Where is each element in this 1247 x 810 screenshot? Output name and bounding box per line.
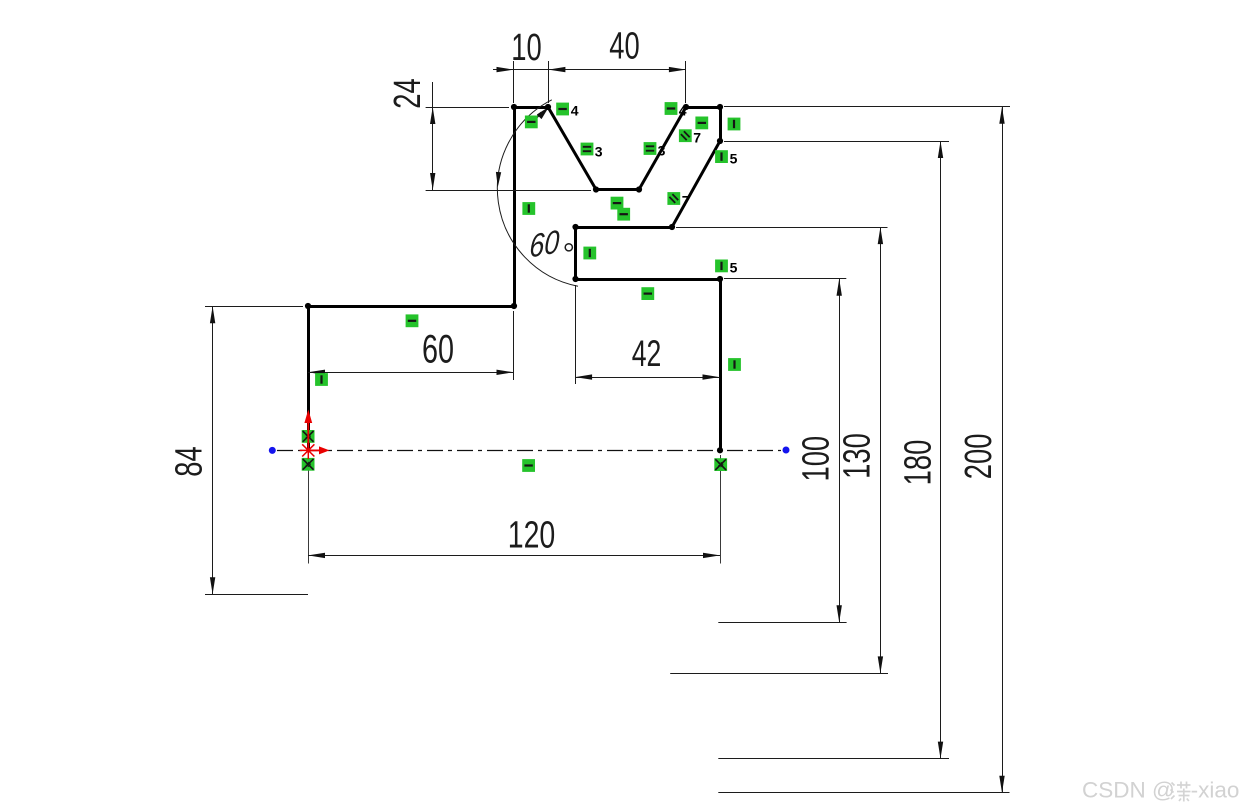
wire chamfer diagonal I-J	[672, 141, 720, 227]
arrow dim24 down	[430, 173, 435, 190]
wire left vertical B-C	[513, 107, 516, 306]
node P10	[572, 276, 578, 282]
wire left vertical O-A	[307, 306, 310, 450]
dimension line 120	[308, 555, 720, 557]
angular dim arrow at apex	[537, 107, 549, 119]
svg-text:100: 100	[795, 436, 837, 482]
node P8	[669, 224, 675, 230]
wire V bottom E-F	[596, 188, 639, 191]
svg-text:60: 60	[422, 327, 454, 372]
node P5	[683, 104, 689, 110]
node P13	[305, 303, 311, 309]
origin point star	[300, 442, 317, 459]
extension line y=227 right	[676, 227, 888, 229]
wire shoulder horizontal A-B	[308, 305, 514, 308]
constraint vertical (edge H-I)	[728, 118, 741, 131]
arrow dim130 up	[878, 227, 883, 244]
dimension line 60	[308, 372, 514, 374]
svg-text:3: 3	[595, 144, 603, 160]
node P9	[572, 224, 578, 230]
svg-text:CSDN @: CSDN @	[1082, 778, 1175, 803]
angular dim leader to apex	[532, 113, 542, 123]
wire V right slope F-G	[639, 107, 686, 190]
svg-text:7: 7	[693, 130, 701, 146]
constraint vertical (edge O-A)	[315, 373, 328, 386]
arrow dim84 down	[210, 577, 215, 594]
arrow dim10 right	[548, 67, 565, 72]
svg-text:10: 10	[511, 27, 541, 69]
arrow dim24 up	[430, 107, 435, 124]
arrow dim40 right	[669, 67, 686, 72]
angular dim arrow on horizontal	[496, 172, 501, 187]
arrow dim120 right	[703, 553, 720, 558]
constraint equal 4 (edge C-D)	[556, 102, 579, 118]
node P2	[545, 104, 551, 110]
extension line y=673 right	[670, 673, 888, 675]
node P3	[593, 186, 599, 192]
constraint vertical 5 (edge H-I)	[715, 150, 738, 166]
constraint horizontal (step bottom L-M)	[641, 287, 654, 300]
svg-text:5: 5	[730, 260, 738, 276]
wire right vertical H-I	[719, 107, 722, 141]
node P12	[717, 447, 723, 453]
node P11	[717, 276, 723, 282]
watermark CSDN	[1082, 778, 1239, 803]
constraint equal 3 (V right slope)	[644, 142, 666, 158]
svg-text:180: 180	[897, 440, 939, 486]
arrow dim130 down	[878, 656, 883, 673]
svg-text:7: 7	[682, 192, 690, 208]
constraint fixed (origin lower)	[302, 458, 315, 471]
svg-text:42: 42	[632, 333, 662, 374]
extension line y=622 right	[718, 622, 846, 624]
centerline	[277, 450, 781, 452]
node P1	[511, 104, 517, 110]
node P14	[511, 303, 517, 309]
extension line y=107 right	[724, 106, 1010, 108]
extension line x=308 below	[308, 456, 310, 564]
wire step top J-K	[576, 226, 673, 229]
constraint horizontal (shoulder A-B)	[406, 314, 419, 327]
node P6	[717, 104, 723, 110]
svg-text:5: 5	[730, 150, 738, 166]
centerline right endpoint	[783, 447, 790, 454]
dimension line 84	[212, 306, 214, 594]
constraint parallel 7 (diagonal I-J)	[667, 192, 689, 208]
svg-text:40: 40	[609, 25, 639, 67]
extension line x=575 mid	[575, 285, 577, 384]
extension line x=513.5 top	[513, 61, 515, 103]
constraint vertical 5 (edge M-N)	[715, 260, 738, 276]
dimension line 24	[432, 82, 434, 190]
node P4	[636, 186, 642, 192]
extension line y=190 left	[426, 190, 591, 192]
wire right vertical M-N	[719, 279, 722, 450]
svg-text:3: 3	[658, 143, 666, 159]
constraint horizontal (step top J-K)	[617, 208, 630, 221]
arrow dim60 right	[497, 370, 514, 375]
extension line x=548.4 top	[548, 61, 550, 103]
extension line y=107 left	[426, 107, 509, 109]
dimension line 130	[880, 227, 882, 673]
svg-text:4: 4	[571, 102, 579, 118]
constraint horizontal (V bottom E-F)	[611, 197, 624, 210]
svg-text:24: 24	[387, 78, 429, 108]
angular dimension arc 60deg	[497, 100, 578, 286]
extension line y=793 right	[718, 792, 1009, 794]
arrow dim10 left	[497, 67, 514, 72]
wire top edge C-D	[514, 106, 548, 109]
dimension line 180	[940, 141, 942, 759]
constraint horizontal (top edge C-D)	[525, 116, 538, 129]
wire step bottom L-M	[576, 278, 721, 281]
dimension line 200	[1002, 107, 1004, 793]
extension line y=758 right	[718, 758, 949, 760]
constraint horizontal (centerline)	[522, 459, 535, 472]
svg-text:120: 120	[508, 515, 556, 557]
extension line x=513.5 mid	[513, 311, 515, 380]
arrow dim84 up	[210, 306, 215, 323]
dimension line 10-40	[493, 69, 686, 71]
arrow dim60 left	[308, 370, 325, 375]
constraint vertical (edge B-C)	[522, 202, 535, 215]
arrow dim42 right	[703, 374, 720, 379]
arrow dim100 down	[837, 605, 842, 622]
constraint parallel 7 (V slope)	[679, 129, 701, 145]
arrow dim180 down	[938, 742, 943, 759]
constraint equal 4 (edge G-H)	[665, 102, 687, 118]
extension line y=306 far-left	[205, 306, 303, 308]
svg-text:200: 200	[958, 434, 1000, 480]
node P7	[717, 138, 723, 144]
wire top edge G-H	[686, 106, 720, 109]
constraint fixed (origin upper)	[302, 430, 315, 443]
arrow dim100 up	[837, 279, 842, 296]
centerline left endpoint	[269, 447, 276, 454]
wire V left slope D-E	[548, 107, 596, 190]
arrow dim200 up	[999, 107, 1004, 124]
dimension line 42	[575, 377, 719, 379]
extension line y=141 right	[724, 141, 949, 143]
svg-text:84: 84	[168, 446, 210, 476]
constraint vertical (edge K-L)	[583, 247, 596, 260]
wire step left K-L	[574, 227, 577, 279]
constraint vertical (edge M-N lower)	[728, 358, 741, 371]
svg-text:60: 60	[529, 224, 561, 265]
extension line x=720 below	[720, 455, 722, 564]
arrow dim120 left	[308, 553, 325, 558]
extension line y=594 far-left	[205, 594, 308, 596]
arrow dim200 down	[999, 776, 1004, 793]
constraint horizontal (edge G-H)	[695, 117, 708, 130]
arrow dim42 left	[575, 374, 592, 379]
svg-text:-xiao: -xiao	[1191, 778, 1240, 803]
dimension line 100	[839, 279, 841, 623]
origin axis Y arrow	[304, 410, 312, 451]
svg-text:130: 130	[836, 433, 878, 479]
extension line y=279 right	[724, 278, 846, 280]
constraint fixed (point N)	[714, 458, 727, 471]
arrow dim180 up	[938, 141, 943, 158]
constraint equal 3 (V left slope)	[581, 143, 603, 160]
extension line x=685.9 top	[685, 61, 687, 103]
origin axis X arrow	[308, 446, 329, 454]
